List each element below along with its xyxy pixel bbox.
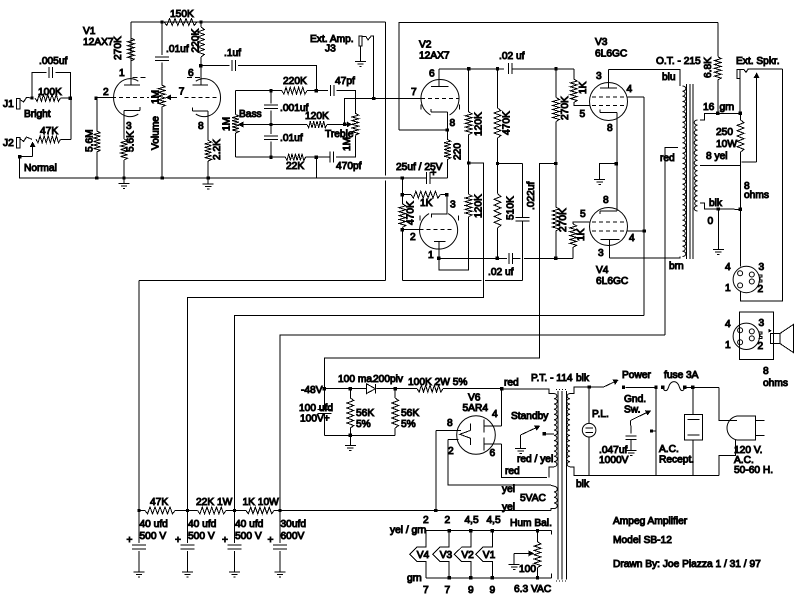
tube V2a (12AX7 inverted) [402, 195, 458, 261]
svg-text:V3: V3 [595, 37, 608, 48]
resistor 56K 5% (1) [347, 389, 374, 436]
capacitor 25uf (cathode bypass) [402, 172, 447, 184]
svg-text:V2: V2 [419, 40, 432, 51]
svg-text:5AR4: 5AR4 [463, 403, 489, 414]
PT primary [567, 394, 570, 467]
resistor 150K [164, 9, 197, 25]
wire bias node [324, 388, 366, 390]
svg-text:V6: V6 [468, 393, 481, 404]
capacitor 30ufd 600V [268, 511, 307, 578]
svg-text:3: 3 [759, 262, 765, 273]
wire AC recept branch [655, 387, 657, 475]
wire connector1 to ext loop [740, 69, 782, 301]
wire bias feed [324, 164, 555, 389]
node V1b plate [199, 64, 202, 67]
svg-text:.1uf: .1uf [224, 48, 241, 59]
switch Gnd Sw [624, 394, 656, 433]
jack Ext. Spkr. [736, 56, 783, 113]
svg-text:100 ufd: 100 ufd [299, 403, 333, 414]
wire rail A horizontal [139, 280, 386, 282]
node 0 tap [717, 207, 720, 210]
svg-text:V4: V4 [417, 550, 430, 561]
svg-text:3: 3 [598, 248, 604, 259]
node V2 bias [401, 176, 404, 179]
svg-text:8: 8 [198, 121, 204, 132]
svg-text:Standby: Standby [511, 411, 549, 422]
svg-text:500 V: 500 V [188, 531, 215, 542]
PT center tap [551, 433, 554, 435]
tube V2b (12AX7) [411, 69, 459, 131]
wire ground bus left [20, 157, 403, 178]
svg-text:.02 uf: .02 uf [488, 267, 514, 278]
hum bal wiper [509, 551, 535, 570]
wire NC contact [742, 161, 757, 163]
svg-text:40 ufd: 40 ufd [140, 519, 169, 530]
capacitor 100ufd 100V [299, 389, 333, 436]
svg-text:150K: 150K [170, 9, 194, 20]
resistor 1K (V2 cathode bias) [402, 178, 446, 209]
wire 250 bottom to connector [740, 162, 742, 266]
svg-text:1K: 1K [576, 228, 587, 241]
svg-text:6: 6 [188, 68, 194, 79]
wire V4 screen [628, 230, 645, 232]
svg-text:red: red [660, 153, 675, 164]
wire plate detour [439, 217, 469, 270]
svg-text:Hum Bal.: Hum Bal. [510, 518, 552, 529]
svg-text:+: + [222, 535, 228, 546]
svg-text:0: 0 [708, 216, 714, 227]
svg-text:2.2K: 2.2K [212, 139, 223, 160]
potentiometer Hum Bal 100 [519, 531, 541, 578]
node J2 corner [18, 155, 21, 158]
connector external speaker [725, 312, 773, 360]
node V2b cathode [446, 128, 449, 131]
svg-text:7: 7 [179, 87, 185, 98]
svg-text:3: 3 [126, 121, 132, 132]
resistor 22K 1W [198, 507, 227, 514]
svg-text:V3: V3 [440, 550, 453, 561]
wire 120K mid to rail 2 [469, 162, 484, 164]
svg-text:grn: grn [720, 102, 735, 113]
svg-text:3: 3 [450, 200, 456, 211]
svg-text:200piv: 200piv [373, 374, 404, 385]
resistor 120K (V2a plate load) [465, 163, 484, 218]
node 120K midpoint [467, 161, 470, 164]
capacitor 40ufd 500V (2) [175, 511, 217, 578]
node 510K bottom [496, 257, 499, 260]
switch Power [604, 370, 652, 389]
svg-text:470K: 470K [502, 111, 513, 135]
tube V6 (5AR4) [436, 409, 502, 459]
svg-text:1K: 1K [578, 81, 589, 94]
heater V4 [410, 531, 430, 578]
svg-text:4: 4 [627, 84, 633, 95]
svg-text:blu: blu [662, 72, 676, 83]
resistor 220K (V1b plate load) [190, 22, 204, 66]
resistor 6.8K (NFB) [703, 22, 721, 113]
svg-text:1K: 1K [420, 198, 433, 209]
node heater [448, 529, 451, 532]
svg-text:3A: 3A [686, 370, 699, 381]
resistor 270K (V4 grid) [552, 164, 568, 259]
PT HV secondary [554, 394, 557, 467]
tube V1b (12AX7 second triode) [185, 66, 221, 141]
svg-text:yel: yel [502, 502, 515, 513]
svg-text:5.6M: 5.6M [84, 129, 95, 152]
svg-text:red: red [505, 466, 520, 477]
capacitor 47pf [316, 76, 355, 113]
resistor 1K (V4 grid stopper) [556, 222, 590, 258]
svg-text:5.6K: 5.6K [125, 131, 136, 152]
svg-text:22K 1W: 22K 1W [196, 497, 233, 508]
capacitor 470pf [316, 152, 361, 172]
svg-text:220: 220 [453, 143, 464, 160]
resistor 100K (J1 input) [35, 87, 70, 101]
AC plug [719, 387, 773, 476]
svg-text:250: 250 [716, 127, 733, 138]
svg-text:100K: 100K [38, 87, 62, 98]
OT red tap [665, 148, 678, 335]
resistor 220 (V2b cathode) [444, 130, 464, 178]
wire V6 fil 8 to B+ [435, 430, 437, 510]
ground (2.2K) [207, 178, 209, 184]
svg-text:J1: J1 [3, 99, 14, 110]
svg-text:4,5: 4,5 [487, 515, 501, 526]
svg-text:Bass: Bass [239, 109, 262, 120]
resistor 5.6M [84, 98, 100, 178]
svg-text:6: 6 [490, 448, 496, 459]
svg-text:.005uf: .005uf [39, 56, 67, 67]
wire B+ rail A top [131, 21, 386, 23]
J2 shorting contact arrow [20, 142, 36, 157]
svg-text:ohms: ohms [744, 190, 769, 201]
node tone top [315, 89, 318, 92]
svg-text:4: 4 [725, 319, 731, 330]
node bus dots [95, 176, 98, 179]
svg-text:yel: yel [502, 484, 515, 495]
ground (OT 0 tap) [717, 209, 719, 250]
tube V3 (6L6GC) [580, 70, 633, 135]
svg-text:5%: 5% [401, 419, 416, 430]
wire screen riser [643, 231, 645, 315]
svg-text:8 yel: 8 yel [706, 151, 728, 162]
svg-text:270K: 270K [113, 36, 124, 60]
node J3 junction [372, 97, 375, 100]
svg-text:5: 5 [580, 209, 586, 220]
svg-text:.022uf: .022uf [526, 182, 537, 210]
svg-text:7: 7 [411, 87, 417, 98]
svg-text:47pf: 47pf [335, 76, 355, 87]
svg-text:+: + [127, 535, 133, 546]
wire V6 plate 4 [501, 389, 503, 426]
svg-text:6L6GC: 6L6GC [596, 276, 628, 287]
svg-text:Treble: Treble [325, 129, 354, 140]
svg-text:-48V: -48V [301, 385, 323, 396]
heater V2 [454, 531, 474, 578]
wire V6 fil 2 to 5VAC [448, 439, 551, 485]
OT 8 tap [700, 165, 740, 167]
wire V4 plate to OT [610, 257, 681, 259]
node screen junction [643, 229, 646, 232]
heater V1 [476, 531, 496, 578]
svg-text:Recept.: Recept. [659, 455, 694, 466]
svg-text:+: + [268, 535, 274, 546]
svg-text:2: 2 [448, 446, 454, 457]
svg-text:1: 1 [428, 250, 434, 261]
svg-text:5%: 5% [356, 419, 371, 430]
resistor 5.6K (V1a cathode) [121, 131, 137, 178]
svg-text:2: 2 [445, 515, 451, 526]
node bias junction [554, 162, 557, 165]
wire V6 plate 6 to PT [502, 444, 547, 477]
switch Standby [511, 411, 551, 454]
svg-text:J3: J3 [325, 44, 336, 55]
svg-text:.01uf: .01uf [166, 44, 189, 55]
svg-text:100 ma.: 100 ma. [338, 374, 375, 385]
capacitor .01uf (tone) [264, 125, 303, 158]
svg-text:56K: 56K [356, 408, 374, 419]
svg-text:O.T. - 215: O.T. - 215 [656, 56, 701, 67]
node bass node [269, 89, 272, 92]
svg-text:2: 2 [758, 284, 764, 295]
node bias gnd [349, 434, 352, 437]
svg-text:brn: brn [669, 261, 684, 272]
svg-text:8: 8 [450, 118, 456, 129]
svg-text:120K: 120K [473, 112, 484, 136]
svg-text:4: 4 [725, 262, 731, 273]
node 470K-510K midpoint [496, 162, 499, 165]
wire tone top [236, 90, 282, 92]
svg-text:A.C.: A.C. [659, 444, 679, 455]
svg-text:Gnd.: Gnd. [624, 394, 646, 405]
svg-text:5VAC: 5VAC [520, 493, 546, 504]
wire rail 4 [280, 335, 665, 511]
potentiometer Volume 1M [150, 85, 165, 178]
resistor 1K 10W [246, 507, 274, 514]
wire V3 plate to OT [608, 70, 680, 87]
svg-text:470pf: 470pf [336, 161, 362, 172]
svg-text:100K 2W 5%: 100K 2W 5% [408, 377, 467, 388]
PT core [557, 391, 559, 580]
svg-text:6.3 VAC: 6.3 VAC [514, 584, 551, 595]
svg-text:100: 100 [519, 564, 536, 575]
svg-text:56K: 56K [401, 408, 419, 419]
diode 100ma 200piv [338, 374, 404, 394]
svg-text:J2: J2 [3, 138, 14, 149]
node 22K-470pf [315, 156, 318, 159]
heater V3 [433, 531, 453, 578]
svg-text:ohms: ohms [763, 378, 788, 389]
wire V3 screen [628, 96, 645, 98]
treble wiper arrow [343, 122, 352, 128]
svg-text:2: 2 [423, 515, 429, 526]
wire V2b plate line [439, 68, 504, 70]
svg-text:Sw.: Sw. [624, 405, 640, 416]
svg-text:47K: 47K [150, 497, 168, 508]
fuse 3A [663, 382, 685, 391]
svg-text:1: 1 [725, 340, 731, 351]
svg-text:V2: V2 [461, 550, 474, 561]
svg-text:blk: blk [576, 479, 590, 490]
wire rail 2 [188, 163, 484, 511]
svg-text:blk: blk [709, 198, 723, 209]
node V2 plate line [467, 67, 470, 70]
svg-text:red: red [504, 378, 519, 389]
svg-text:47K: 47K [40, 126, 58, 137]
tube V4 (6L6GC) [580, 195, 635, 259]
svg-text:P.T. - 114: P.T. - 114 [531, 373, 573, 384]
wire riser 1 [138, 281, 140, 511]
svg-text:P.L.: P.L. [592, 409, 609, 420]
svg-text:270K: 270K [560, 96, 571, 120]
svg-text:2: 2 [758, 341, 764, 352]
wire mains top [589, 386, 603, 388]
lamp P.L. [582, 387, 609, 475]
svg-text:40 ufd: 40 ufd [188, 519, 217, 530]
capacitor .02uf (to V4 grid) [488, 253, 556, 278]
svg-text:1M: 1M [151, 90, 162, 104]
svg-text:510K: 510K [505, 196, 516, 220]
OT primary winding [683, 86, 686, 257]
svg-text:Normal: Normal [24, 163, 57, 174]
jack J1 [3, 98, 32, 111]
OT secondary winding [694, 120, 697, 211]
capacitor .047uf 1000V [599, 421, 637, 467]
svg-text:red / yel: red / yel [517, 454, 553, 465]
svg-text:8: 8 [447, 418, 453, 429]
capacitor 40ufd 500V (1) [127, 511, 169, 578]
svg-text:8: 8 [763, 366, 769, 377]
svg-text:4: 4 [629, 233, 635, 244]
speaker icon [771, 325, 794, 353]
node input [30, 96, 33, 99]
wire V3-V4 cathode [616, 113, 618, 211]
node red HV [500, 387, 503, 390]
svg-text:V1: V1 [83, 26, 96, 37]
svg-text:2: 2 [103, 87, 109, 98]
svg-text:2: 2 [410, 232, 416, 243]
resistor 1K (V3 grid stopper) [570, 69, 589, 106]
ground (bias) [349, 435, 351, 445]
svg-text:1: 1 [119, 68, 125, 79]
resistor 22K (tone) [236, 154, 317, 172]
connector internal speaker [725, 262, 765, 295]
AC receptacle [659, 387, 703, 475]
resistor 220K (tone) [282, 76, 317, 94]
potentiometer Treble 1M [325, 113, 359, 157]
svg-text:12AX7: 12AX7 [419, 51, 450, 62]
wire mains bottom [589, 474, 719, 476]
node -48V [323, 387, 326, 390]
svg-text:220K: 220K [283, 76, 307, 87]
jack J2 [3, 137, 32, 149]
node 16 tap [716, 112, 719, 115]
capacitor .001uf [264, 91, 308, 125]
ground (J3) [360, 46, 362, 62]
svg-text:1K 10W: 1K 10W [243, 497, 280, 508]
ext spkr NC contact arrow [756, 75, 758, 162]
bass wiper arrow [238, 122, 271, 128]
svg-text:.02 uf: .02 uf [499, 51, 525, 62]
svg-text:1: 1 [725, 283, 731, 294]
capacitor .005uf [32, 56, 70, 98]
svg-text:120K: 120K [473, 194, 484, 218]
svg-text:470K: 470K [405, 201, 416, 225]
svg-text:Ext. Spkr.: Ext. Spkr. [736, 56, 780, 67]
svg-text:500 V: 500 V [235, 531, 262, 542]
wire grid return [401, 230, 403, 281]
wire heater bottom [426, 577, 552, 579]
capacitor 40ufd 500V (3) [222, 511, 264, 578]
wire rail 3 [235, 315, 645, 510]
capacitor .1uf coupling [201, 48, 316, 91]
wire 470pf junction to ground bus [315, 157, 317, 178]
svg-text:3: 3 [596, 71, 602, 82]
svg-text:grn: grn [407, 573, 422, 584]
wire cathode to 220 [399, 129, 448, 131]
svg-text:8: 8 [603, 195, 609, 206]
wire treble wiper to V2 grid [345, 99, 421, 125]
resistor 120K (V2b plate load) [465, 69, 484, 163]
svg-text:600V: 600V [281, 531, 305, 542]
tube V1a (12AX7 first triode) [96, 61, 149, 139]
svg-text:Power: Power [622, 370, 651, 381]
svg-text:Model SB-12: Model SB-12 [613, 535, 672, 546]
resistor 470K (V2a grid leak) [399, 195, 416, 230]
resistor 120K (tone) [271, 111, 345, 128]
resistor 47K (filter) [145, 507, 175, 514]
svg-text:5: 5 [580, 109, 586, 120]
resistor 270K (V1a plate load) [113, 22, 135, 61]
svg-text:1M: 1M [222, 117, 233, 131]
node cathode gnd tap [615, 162, 618, 165]
svg-text:9: 9 [490, 585, 496, 596]
svg-text:Volume: Volume [150, 116, 161, 150]
svg-text:blk: blk [576, 373, 590, 384]
svg-text:4,5: 4,5 [465, 515, 479, 526]
svg-text:6L6GC: 6L6GC [595, 49, 627, 60]
node chain [137, 509, 140, 512]
resistor 100K 2W 5% [417, 385, 443, 392]
ground (5.6K) [123, 178, 125, 184]
svg-text:40 ufd: 40 ufd [235, 519, 264, 530]
svg-text:fuse: fuse [664, 370, 684, 381]
capacitor .01uf (rail to volume) [155, 22, 189, 85]
svg-text:V4: V4 [596, 265, 609, 276]
svg-text:+: + [431, 168, 437, 179]
OT 0 tap [700, 203, 740, 209]
svg-text:270K: 270K [558, 208, 569, 232]
svg-text:3: 3 [759, 318, 765, 329]
volume wiper arrow [166, 87, 185, 101]
resistor 510K [494, 164, 516, 259]
svg-text:500 V: 500 V [140, 531, 167, 542]
resistor 270K (V3 grid) [553, 69, 571, 164]
node rail dots [160, 20, 163, 23]
svg-text:+: + [175, 535, 181, 546]
svg-text:8: 8 [607, 123, 613, 134]
wire heater top [426, 530, 552, 532]
svg-text:1000V: 1000V [599, 455, 629, 466]
resistor 470K (divider) [494, 69, 512, 164]
svg-text:30ufd: 30ufd [281, 519, 307, 530]
OT core [686, 84, 688, 259]
svg-text:16: 16 [703, 102, 715, 113]
svg-text:100V+: 100V+ [300, 414, 330, 425]
OT 16 tap [700, 113, 718, 120]
resistor 56K 5% (2) [392, 389, 420, 436]
svg-text:120K: 120K [305, 111, 329, 122]
